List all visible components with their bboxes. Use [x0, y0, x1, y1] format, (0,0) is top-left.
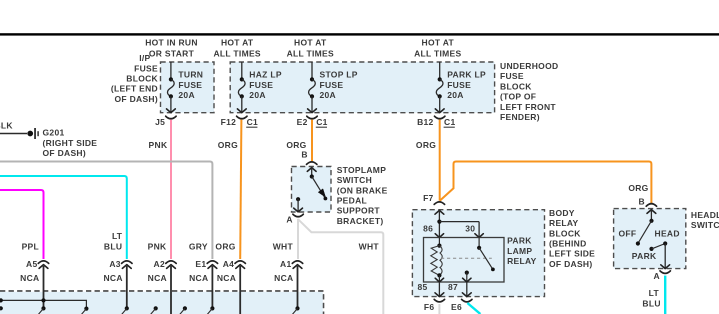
svg-text:ORG: ORG: [628, 183, 648, 193]
wire A2 into box: [170, 266, 172, 314]
connector E2 C1: [307, 116, 317, 119]
power feed bus line: [0, 33, 719, 35]
svg-text:PNK: PNK: [148, 241, 167, 251]
svg-text:C1: C1: [247, 117, 258, 127]
connector B headlamp: [646, 204, 656, 207]
headlamp switch common contact: [649, 219, 653, 223]
relay coil: [438, 238, 440, 246]
stoplamp switch contact B: [311, 168, 313, 177]
connector A headlamp: [660, 271, 670, 274]
wire ORG E2 to stoplamp switch: [311, 120, 313, 162]
svg-text:B: B: [639, 196, 645, 206]
connector F7: [434, 202, 444, 205]
wire A5 into box: [43, 266, 45, 308]
svg-text:ALL TIMES: ALL TIMES: [287, 48, 334, 58]
svg-text:A: A: [286, 215, 292, 225]
svg-text:E2: E2: [297, 117, 308, 127]
svg-text:NCA: NCA: [20, 273, 39, 283]
svg-text:NCA: NCA: [217, 273, 236, 283]
wire LT BLU to A3: [0, 176, 127, 259]
svg-text:A3: A3: [109, 259, 120, 269]
relay 87 contact: [465, 271, 469, 275]
relay pin 87 arrow: [463, 278, 471, 282]
internal bus wire: [1, 300, 87, 308]
svg-text:C1: C1: [316, 117, 327, 127]
svg-text:PNK: PNK: [149, 140, 168, 150]
svg-text:OFF: OFF: [618, 228, 636, 238]
svg-text:J5: J5: [155, 117, 165, 127]
stoplamp switch pin B arrow: [307, 168, 316, 172]
wire LT BLU below E6: [467, 303, 480, 314]
svg-text:HEAD: HEAD: [655, 228, 680, 238]
svg-text:(LEFT END: (LEFT END: [111, 84, 158, 94]
svg-text:OF DASH): OF DASH): [549, 259, 592, 269]
svg-text:BRACKET): BRACKET): [337, 216, 384, 226]
svg-text:PPL: PPL: [22, 241, 39, 251]
svg-text:HOT AT: HOT AT: [294, 38, 327, 48]
headlamp switch blade to OFF: [638, 221, 652, 244]
svg-text:HOT IN RUN: HOT IN RUN: [145, 38, 198, 48]
svg-text:PARK: PARK: [507, 236, 532, 246]
svg-text:HOT AT: HOT AT: [422, 38, 455, 48]
svg-text:NCA: NCA: [148, 273, 167, 283]
fuse PARK LP FUSE 20A: [439, 62, 441, 79]
ground wire BLK: [0, 133, 27, 135]
wire A3 into box: [126, 266, 128, 308]
internal contact dots and blades: [0, 306, 3, 310]
underhood fuse block box: [230, 62, 494, 113]
relay pin 85 wire out: [438, 282, 440, 297]
svg-text:HOT AT: HOT AT: [221, 38, 254, 48]
svg-text:20A: 20A: [320, 90, 337, 100]
connector B12 C1: [435, 116, 445, 119]
svg-text:I/P: I/P: [139, 53, 150, 63]
svg-text:BLU: BLU: [642, 298, 660, 308]
connector J5: [166, 116, 176, 119]
headlamp switch PARK contact: [649, 247, 653, 251]
svg-text:OF DASH): OF DASH): [115, 94, 158, 104]
stoplamp switch pin A arrow: [294, 208, 303, 212]
svg-text:G201: G201: [43, 128, 65, 138]
svg-text:UNDERHOOD: UNDERHOOD: [500, 61, 558, 71]
svg-text:20A: 20A: [178, 90, 195, 100]
svg-text:PARK LP: PARK LP: [447, 70, 486, 80]
wire to relay pin 30: [439, 221, 479, 223]
svg-text:WHT: WHT: [273, 241, 294, 251]
fuse STOP LP FUSE 20A: [311, 62, 313, 79]
wire WHT below F6: [438, 304, 440, 314]
svg-text:WHT: WHT: [359, 241, 380, 251]
svg-text:BLU: BLU: [104, 241, 122, 251]
connector F6: [434, 299, 444, 302]
headlamp switch pin A arrow: [661, 265, 670, 269]
relay pin 87 wire out: [466, 282, 468, 297]
wire LT BLU below headlamp A: [664, 276, 666, 314]
svg-text:B: B: [301, 149, 307, 159]
svg-text:(TOP OF: (TOP OF: [500, 92, 536, 102]
wire A1 into box: [297, 266, 299, 308]
svg-text:LEFT FRONT: LEFT FRONT: [500, 102, 556, 112]
wire PPL to A5: [0, 190, 44, 259]
svg-text:BLOCK: BLOCK: [500, 81, 532, 91]
svg-text:FUSE: FUSE: [178, 80, 202, 90]
svg-text:FENDER): FENDER): [500, 112, 540, 122]
stoplamp switch contact A: [296, 197, 300, 201]
ground splice G201: [27, 131, 33, 137]
svg-text:STOPLAMP: STOPLAMP: [337, 165, 387, 175]
svg-text:BLOCK: BLOCK: [549, 228, 581, 238]
stoplamp switch blade: [312, 177, 325, 199]
svg-text:HAZ LP: HAZ LP: [249, 70, 282, 80]
svg-text:RELAY: RELAY: [507, 256, 537, 266]
I/P fuse block box: [161, 62, 215, 113]
relay linkage dashed line: [441, 257, 492, 259]
svg-text:ORG: ORG: [218, 140, 238, 150]
svg-text:F7: F7: [423, 193, 434, 203]
svg-text:F6: F6: [424, 302, 435, 312]
svg-text:E6: E6: [451, 302, 462, 312]
headlamp switch HEAD contact: [663, 241, 667, 245]
relay switch 30 contact: [478, 238, 480, 248]
park lamp relay inner box: [424, 238, 505, 283]
wire A4 into box: [239, 266, 241, 314]
svg-text:20A: 20A: [447, 90, 464, 100]
wire ORG B12 to F7: [439, 120, 441, 201]
wire PNK J5 to A2: [170, 120, 172, 259]
wire GRY to E1: [0, 162, 212, 260]
svg-text:85: 85: [417, 282, 427, 292]
wire ORG branch F7 to headlamp switch: [440, 162, 652, 204]
headlamp switch pin B arrow: [647, 210, 656, 214]
svg-text:BLK: BLK: [0, 121, 13, 131]
svg-text:ORG: ORG: [416, 140, 436, 150]
wire E1 into box: [211, 266, 213, 308]
svg-text:BODY: BODY: [549, 208, 575, 218]
svg-text:(RIGHT SIDE: (RIGHT SIDE: [43, 138, 98, 148]
relay pin 30 arrow: [475, 234, 483, 238]
svg-text:SWITCH: SWITCH: [337, 175, 372, 185]
relay feed wire from F7: [435, 210, 444, 214]
fuse HAZ LP FUSE 20A: [241, 62, 243, 79]
svg-text:(BEHIND: (BEHIND: [549, 239, 587, 249]
svg-text:SUPPORT: SUPPORT: [337, 206, 381, 216]
wire WHT stoplamp A down to A1: [297, 219, 299, 259]
relay switch blade: [479, 248, 493, 270]
bottom component box: [0, 291, 324, 314]
svg-text:BLOCK: BLOCK: [126, 74, 158, 84]
wire ORG F12 to A4: [240, 120, 241, 259]
svg-text:B12: B12: [417, 117, 434, 127]
body relay block exit arrows: [435, 293, 444, 297]
svg-text:(ON BRAKE: (ON BRAKE: [337, 185, 388, 195]
svg-text:OR START: OR START: [149, 48, 195, 58]
svg-text:A2: A2: [154, 259, 165, 269]
wire WHT branch to right: [298, 219, 383, 314]
relay pin 86 arrow: [435, 234, 443, 238]
svg-text:FUSE: FUSE: [500, 71, 524, 81]
stoplamp switch pin B connector: [307, 162, 317, 165]
svg-text:LEFT SIDE: LEFT SIDE: [549, 249, 595, 259]
connector F12 C1: [237, 116, 247, 119]
stoplamp switch pin A connector: [293, 214, 303, 217]
svg-text:86: 86: [423, 224, 433, 234]
svg-text:FUSE: FUSE: [320, 80, 344, 90]
svg-text:GRY: GRY: [189, 241, 208, 251]
svg-text:20A: 20A: [249, 90, 265, 100]
svg-text:ALL TIMES: ALL TIMES: [213, 48, 260, 58]
svg-text:HEADLAMP: HEADLAMP: [691, 210, 719, 220]
svg-text:E1: E1: [195, 259, 206, 269]
svg-text:NCA: NCA: [189, 273, 208, 283]
junction dot relay feed: [437, 220, 441, 224]
svg-text:FUSE: FUSE: [249, 80, 273, 90]
svg-text:FUSE: FUSE: [447, 80, 471, 90]
svg-text:ALL TIMES: ALL TIMES: [414, 48, 461, 58]
svg-text:A5: A5: [26, 259, 37, 269]
svg-text:LT: LT: [649, 288, 660, 298]
svg-text:SWITCH: SWITCH: [691, 220, 719, 230]
svg-text:A4: A4: [223, 259, 234, 269]
svg-text:F12: F12: [221, 117, 237, 127]
svg-text:A: A: [653, 271, 659, 281]
svg-text:PEDAL: PEDAL: [337, 196, 367, 206]
stoplamp switch box: [292, 167, 332, 213]
svg-text:87: 87: [448, 282, 458, 292]
svg-text:STOP LP: STOP LP: [320, 70, 358, 80]
svg-text:PARK: PARK: [632, 251, 657, 261]
fuse TURN FUSE 20A: [170, 62, 172, 79]
svg-text:FUSE: FUSE: [134, 63, 158, 73]
svg-text:ORG: ORG: [215, 241, 235, 251]
svg-text:30: 30: [465, 224, 475, 234]
svg-text:LT: LT: [112, 231, 123, 241]
svg-text:C1: C1: [444, 117, 455, 127]
svg-text:TURN: TURN: [178, 70, 203, 80]
connector E6: [462, 299, 472, 302]
body relay block box: [412, 210, 544, 297]
relay pin 85 arrow: [435, 278, 443, 282]
headlamp switch box: [614, 209, 686, 269]
svg-text:NCA: NCA: [103, 273, 122, 283]
svg-text:LAMP: LAMP: [507, 246, 532, 256]
svg-text:NCA: NCA: [274, 273, 293, 283]
svg-text:A1: A1: [280, 259, 291, 269]
svg-text:RELAY: RELAY: [549, 218, 579, 228]
svg-text:OF DASH): OF DASH): [43, 148, 86, 158]
